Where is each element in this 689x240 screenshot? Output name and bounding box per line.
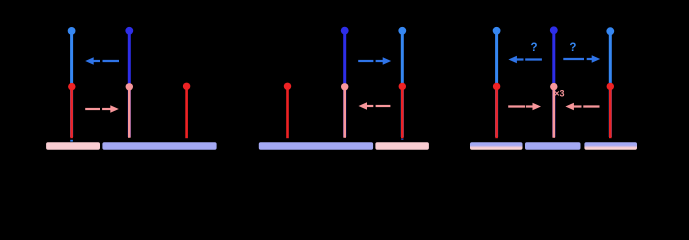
panel 3 gradient base bar 1 — [470, 142, 523, 149]
panel 3 short pink pin 2 line — [552, 88, 555, 138]
panel 3 light-blue ball pin 3 — [606, 27, 614, 35]
svg-text:?: ? — [569, 42, 576, 54]
panel 2 short red pin 3 line — [401, 88, 404, 138]
panel 3 pink dashed arrow pointing left — [565, 103, 599, 110]
panel 1 red ball pin 3 — [183, 83, 190, 90]
svg-text:×3: ×3 — [554, 88, 564, 98]
panel 3 short red pin 1 line — [495, 88, 498, 138]
panel 2 tall light-blue pin line — [401, 33, 404, 137]
panel 3 dark-blue ball pin 2 — [550, 26, 558, 34]
panel 2 blue dashed arrow pointing right — [358, 57, 391, 64]
panel 2 light-blue ball — [398, 27, 406, 35]
panel 1 pink ball pin 2 — [126, 83, 133, 90]
panel 2 short pink pin line — [343, 88, 346, 138]
panel 3 blue base bar 2 — [525, 142, 581, 149]
panel 1 tall pin bottom nub — [70, 140, 73, 142]
panel 1 tall light-blue pin line — [70, 33, 73, 137]
panel 1 pink base bar — [46, 142, 100, 149]
panel 1 light-blue ball — [68, 27, 76, 35]
panel 3 tall light-blue pin 3 line — [609, 33, 612, 137]
panel 1 short pink pin line — [128, 88, 131, 138]
panel 2 blue base bar — [259, 142, 373, 149]
panel 3 tall light-blue pin 1 line — [495, 33, 498, 137]
panel 1 tall dark-blue pin line — [128, 33, 131, 137]
panel 3 blue dashed arrow pointing right — [563, 55, 600, 62]
panel 3 pink ball pin 2 — [550, 83, 557, 90]
panel 3 gradient base bar 3 — [584, 142, 637, 149]
panel 2 tall dark-blue pin line — [343, 33, 346, 137]
panel 2 pink base bar — [375, 142, 429, 149]
panel 3 red ball pin 1 — [493, 83, 500, 90]
panel 1 blue base bar — [102, 142, 216, 149]
panel 1 short red pin 3 line — [185, 88, 188, 138]
panel 1 pink dashed arrow pointing right — [85, 105, 119, 112]
panel 1 blue dashed arrow pointing left — [85, 57, 119, 64]
panel 2 red ball pin 3 — [399, 83, 406, 90]
panel 3 red ball pin 3 — [607, 83, 614, 90]
panel 1 dark-blue ball — [125, 27, 133, 35]
panel 3 blue dashed arrow pointing left — [508, 56, 542, 63]
panel 2 red ball pin 1 — [284, 83, 291, 90]
panel 1 short red pin 1 line — [70, 88, 73, 138]
panel 3 tall dark-blue pin 2 line — [552, 33, 555, 137]
panel 3 light-blue ball pin 1 — [493, 27, 501, 35]
panel 3 pink dashed arrow pointing right — [508, 103, 541, 110]
panel 2 short red pin 1 line — [286, 88, 289, 138]
panel 2 pink ball pin 2 — [341, 83, 348, 90]
panel 2 tall pin 3 bottom nub — [401, 139, 403, 140]
panel 1 red ball pin 1 — [68, 83, 75, 90]
panel 2 pink dashed arrow pointing left — [359, 102, 391, 109]
svg-text:?: ? — [530, 42, 537, 54]
panel 2 dark-blue ball — [341, 27, 349, 35]
panel 3 short red pin 3 line — [609, 88, 612, 138]
